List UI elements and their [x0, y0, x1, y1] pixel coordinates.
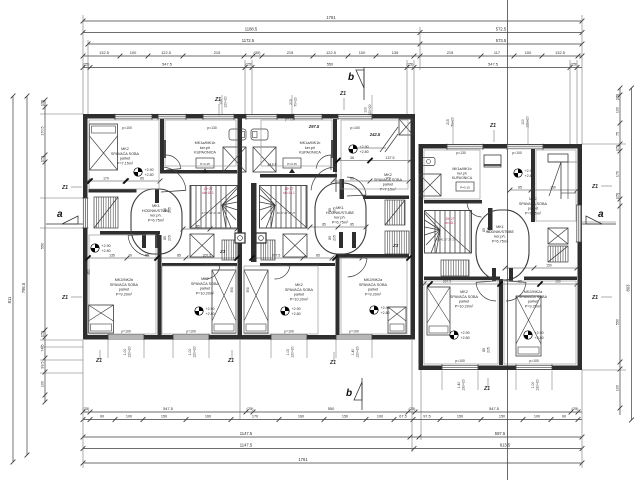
unit2 level marker lower bedroom — [281, 307, 301, 316]
guide stub w3b — [306, 340, 308, 358]
unit3 wall between lower bedrooms — [499, 279, 503, 365]
svg-text:(25): (25) — [572, 406, 580, 411]
svg-text:207.5: 207.5 — [272, 253, 281, 257]
svg-text:Z3: Z3 — [392, 243, 399, 248]
Z1 left lower stub line — [71, 296, 82, 298]
unit2 lower rooms top wall left — [260, 263, 335, 266]
rotated dim unit2 corridor b — [328, 235, 337, 241]
svg-text:SPAVAĆA SOBA: SPAVAĆA SOBA — [110, 282, 139, 287]
Z1 bottom unit2 left stub line — [231, 350, 233, 359]
dimension line top overall 1761 — [81, 15, 585, 24]
unit2 corridor inner dim — [308, 223, 369, 230]
svg-text:P=7.15m²: P=7.15m² — [380, 187, 397, 191]
dimension line right segments — [615, 86, 622, 415]
unit2 wall bedroom/bath vertical — [333, 119, 337, 172]
svg-text:550: 550 — [615, 319, 619, 325]
guide vertical x240 bottom — [239, 340, 241, 419]
svg-text:P=9.20m²: P=9.20m² — [116, 292, 133, 296]
unit1 stair column box — [235, 233, 245, 243]
interior dim row unit3 mid — [503, 264, 580, 271]
unit3 bath label — [452, 167, 473, 180]
svg-text:550: 550 — [40, 243, 44, 249]
interior dim row unit1 upper — [86, 176, 163, 183]
svg-text:100: 100 — [615, 107, 619, 113]
rotated dim unit3 corridor b — [482, 227, 491, 233]
guide vertical x421 bottom — [420, 370, 422, 440]
svg-text:p=100: p=100 — [529, 359, 539, 363]
svg-text:1761: 1761 — [298, 457, 308, 462]
svg-text:+2.90: +2.90 — [525, 169, 534, 173]
rotated dim pair top x222 — [219, 96, 228, 108]
unit1 door lower-right — [205, 264, 220, 279]
svg-text:Z1: Z1 — [214, 97, 221, 103]
guide stub w5b — [477, 371, 479, 390]
unit3 bed lower-right bedroom — [516, 296, 541, 356]
window top unit1 p=100 — [115, 114, 152, 120]
svg-text:MK2/MK2a: MK2/MK2a — [524, 290, 543, 294]
unit2 wc fixture — [251, 129, 268, 140]
unit1 wall bedroom bottom — [89, 189, 137, 193]
Z1 top unit2 stub line — [343, 98, 345, 110]
svg-text:795.5: 795.5 — [21, 282, 26, 293]
svg-text:100: 100 — [377, 415, 383, 419]
svg-text:160: 160 — [205, 415, 211, 419]
svg-text:MK1: MK1 — [152, 204, 160, 208]
dimension line bottom 25/547.5 row — [81, 406, 582, 414]
unit3 level marker lower-left — [450, 331, 470, 340]
window bottom unit2 right p=100 — [336, 334, 372, 340]
svg-text:+2.80: +2.80 — [360, 150, 369, 154]
window bottom unit1 right p=100 — [173, 334, 209, 340]
unit2 bath outline — [261, 120, 332, 166]
unit1 corridor jamb bottom a — [155, 232, 159, 248]
unit2 corridor jamb bottom b — [352, 232, 356, 248]
unit1 lower rooms top wall left — [100, 231, 160, 235]
svg-text:SPAVAĆA SOBA: SPAVAĆA SOBA — [519, 201, 548, 206]
svg-text:70+20: 70+20 — [294, 97, 298, 107]
unit1 sink fixture — [196, 158, 214, 168]
svg-text:132.5: 132.5 — [555, 50, 565, 55]
svg-text:97.5: 97.5 — [423, 415, 430, 419]
svg-text:p=100: p=100 — [284, 330, 294, 334]
svg-text:27 27 27 27 46: 27 27 27 27 46 — [202, 211, 221, 215]
window right wall unit3 — [576, 205, 582, 242]
svg-text:85: 85 — [145, 253, 149, 257]
unit2 stair column box — [256, 233, 266, 243]
unit3 wall stub corridor left — [488, 208, 493, 230]
guide stub x524 — [527, 120, 529, 144]
svg-text:613.5: 613.5 — [500, 443, 511, 448]
guide vertical x88 top — [87, 40, 89, 114]
svg-text:135: 135 — [109, 253, 115, 257]
svg-text:MK1a/MK1b: MK1a/MK1b — [452, 167, 471, 171]
Z1 top unit3 stub line — [493, 130, 495, 142]
svg-text:152.5: 152.5 — [382, 253, 391, 257]
svg-text:(25): (25) — [40, 331, 44, 338]
svg-text:120+20: 120+20 — [368, 104, 372, 116]
svg-text:120+20: 120+20 — [356, 346, 360, 358]
svg-text:p=130: p=130 — [207, 126, 217, 130]
dimension line right overall 803 — [625, 86, 634, 423]
Z1 bottom unit2 right stub line — [333, 352, 335, 361]
svg-text:170: 170 — [615, 171, 619, 177]
unit3 lower-left bedroom label — [450, 290, 479, 308]
guide stub w1a — [107, 340, 109, 358]
svg-text:+2.80: +2.80 — [102, 249, 111, 253]
svg-text:85: 85 — [344, 253, 348, 257]
svg-text:170: 170 — [385, 176, 391, 180]
unit1 bath door — [166, 155, 181, 170]
svg-text:MK2: MK2 — [121, 147, 129, 151]
P-box triangle marker unit1 — [202, 169, 208, 174]
svg-text:130+20: 130+20 — [462, 379, 466, 391]
svg-text:SPAVAĆA SOBA: SPAVAĆA SOBA — [111, 151, 140, 156]
svg-text:ker.pň.: ker.pň. — [494, 235, 505, 239]
unit2 door bedroom — [311, 167, 336, 192]
svg-text:1188.5: 1188.5 — [245, 27, 258, 32]
unit2 wall bedroom bottom — [363, 196, 409, 200]
unit1 lower flight strips — [222, 240, 236, 260]
svg-text:+2.90: +2.90 — [145, 168, 154, 172]
unit2 bed lower-left bedroom — [244, 270, 268, 333]
unit3 level marker upper — [514, 169, 534, 178]
unit2 door lower-right — [347, 257, 367, 277]
svg-text:85: 85 — [163, 236, 167, 240]
unit2 lower-left bedroom label — [285, 283, 314, 301]
svg-text:p=100: p=100 — [349, 330, 359, 334]
interior dim row unit3 upper — [508, 185, 580, 192]
svg-text:10: 10 — [128, 253, 132, 257]
svg-text:ker.pň: ker.pň — [200, 146, 210, 150]
Z1 bottom unit1 stub line — [99, 350, 101, 359]
dimension line top 547.5/550/547.5 — [81, 62, 582, 70]
svg-text:215: 215 — [447, 50, 454, 55]
Z1 top unit1 stub line — [218, 104, 220, 116]
unit2 lower flight strips — [261, 240, 275, 260]
guide vertical x252 top — [251, 60, 253, 114]
guide stub x366 — [371, 95, 373, 114]
svg-text:SPAVAĆA SOBA: SPAVAĆA SOBA — [519, 294, 548, 299]
svg-text:100: 100 — [40, 381, 44, 387]
svg-text:sb=18.1: sb=18.1 — [283, 191, 295, 195]
svg-text:KUPAONICA: KUPAONICA — [452, 176, 473, 180]
unit3 shaft box — [419, 174, 441, 196]
unit1 stair fan treads — [190, 186, 238, 229]
guide stub w1b — [143, 340, 145, 358]
svg-text:130+20: 130+20 — [536, 379, 540, 391]
svg-text:100: 100 — [525, 50, 532, 55]
svg-text:75: 75 — [615, 132, 619, 136]
svg-text:Z1: Z1 — [489, 123, 496, 129]
svg-text:547.5: 547.5 — [489, 406, 499, 411]
unit3 door lower-left — [476, 281, 496, 301]
window top unit1 p=130 — [203, 114, 234, 120]
svg-text:150: 150 — [457, 415, 463, 419]
svg-text:1147.5: 1147.5 — [240, 443, 253, 448]
unit3 lower-left bedroom outline — [424, 281, 498, 364]
svg-text:p=130: p=130 — [456, 151, 466, 155]
svg-text:ker.pň.: ker.pň. — [150, 214, 161, 218]
unit2 bath shaft — [253, 147, 276, 172]
svg-text:803: 803 — [625, 284, 630, 292]
guide vertical x570 top — [569, 60, 571, 144]
guide stub w2a — [172, 340, 174, 358]
guide stub w3a — [270, 340, 272, 358]
svg-text:Z1: Z1 — [483, 386, 490, 392]
guide horizontal left y373 — [40, 372, 83, 374]
svg-text:ker.pň: ker.pň — [305, 146, 315, 150]
unit1 wall between lower bedrooms — [158, 235, 162, 335]
rotated dim pair top x524 — [521, 116, 530, 128]
svg-text:(25): (25) — [615, 94, 619, 101]
svg-text:67.5: 67.5 — [399, 415, 406, 419]
guide stub x449 — [452, 120, 454, 144]
unit3 closet strips left — [441, 260, 469, 276]
svg-text:100: 100 — [126, 415, 132, 419]
svg-text:120+20: 120+20 — [526, 116, 530, 128]
svg-text:SPAVAĆA SOBA: SPAVAĆA SOBA — [285, 287, 314, 292]
svg-text:100: 100 — [615, 385, 619, 391]
unit2 lower-left bedroom outline — [244, 266, 318, 334]
svg-text:+2.80: +2.80 — [206, 312, 215, 316]
left building wall right — [411, 114, 416, 340]
svg-text:parket: parket — [120, 157, 131, 161]
svg-text:85: 85 — [350, 176, 354, 180]
svg-text:P=9.20m²: P=9.20m² — [525, 304, 542, 308]
svg-text:46 27 27 27 27: 46 27 27 27 27 — [277, 211, 296, 215]
svg-text:120+20: 120+20 — [291, 346, 295, 358]
guide stub x222 — [221, 95, 223, 114]
rotated dim pair top x362 — [364, 104, 373, 116]
svg-text:+2.80: +2.80 — [525, 174, 534, 178]
svg-text:(25): (25) — [407, 62, 415, 67]
guide stub w4a — [335, 340, 337, 358]
svg-text:P=6.75m²: P=6.75m² — [492, 239, 509, 243]
window top unit2 p=100 — [338, 114, 372, 120]
window top unit2 p=130 — [246, 114, 277, 120]
window bottom unit2 left p=100 — [271, 334, 307, 340]
svg-text:90: 90 — [562, 415, 566, 419]
unit2 lower rooms top wall right — [338, 254, 409, 258]
svg-text:150: 150 — [499, 415, 505, 419]
svg-text:parket: parket — [294, 293, 305, 297]
interior dim row unit1 — [86, 253, 240, 260]
guide vertical right bottom — [581, 370, 583, 468]
svg-text:120+20: 120+20 — [193, 346, 197, 358]
left building wall bottom — [83, 335, 415, 340]
svg-text:205: 205 — [168, 235, 172, 241]
svg-text:p=100: p=100 — [350, 126, 360, 130]
unit3 door lower-right — [506, 281, 526, 301]
svg-text:(25): (25) — [40, 156, 44, 163]
guide horizontal right y222 — [582, 221, 616, 223]
svg-text:P=9.20m²: P=9.20m² — [365, 292, 382, 296]
svg-text:MK2/MK2a: MK2/MK2a — [364, 278, 383, 282]
guide horizontal right y144 — [582, 143, 626, 145]
window top unit1 entrance — [158, 114, 186, 120]
svg-text:350: 350 — [230, 287, 234, 293]
svg-text:parket: parket — [459, 300, 470, 304]
svg-text:150: 150 — [161, 415, 167, 419]
svg-text:P=3.15: P=3.15 — [287, 162, 297, 166]
svg-text:85: 85 — [482, 348, 486, 352]
svg-text:205: 205 — [487, 347, 491, 353]
right building wall bottom — [419, 366, 583, 371]
svg-text:parket: parket — [200, 287, 211, 291]
svg-text:+2.90: +2.90 — [381, 306, 390, 310]
unit2 corridor oval wall — [315, 183, 366, 254]
unit1 bath outline — [165, 120, 236, 166]
unit2 lower-right bedroom outline — [341, 258, 407, 334]
window bottom unit1 left p=100 — [108, 334, 144, 340]
unit1 bath bottom wall — [160, 170, 237, 174]
section marker b bottom — [346, 378, 362, 410]
party wall second leaf stair zone — [251, 183, 257, 262]
svg-text:117: 117 — [494, 50, 500, 55]
svg-text:100: 100 — [364, 107, 368, 113]
guide horizontal left y347 — [40, 346, 83, 348]
unit3 closet strips right — [548, 246, 568, 262]
unit1 lower-left bedroom outline — [89, 235, 156, 334]
guide vertical x245 top — [244, 60, 246, 114]
unit2 bedroom label — [374, 173, 403, 191]
guide horizontal left y340 — [40, 339, 83, 341]
interior dim row unit2 — [250, 253, 412, 260]
svg-text:parket: parket — [368, 288, 379, 292]
window top unit3 p=130 — [447, 144, 483, 150]
guide stub w6a — [515, 371, 517, 390]
unit1 bedroom label — [111, 147, 140, 165]
svg-text:P=3.15: P=3.15 — [460, 186, 470, 190]
svg-text:+2.90: +2.90 — [360, 145, 369, 149]
svg-text:P=7.15m²: P=7.15m² — [117, 161, 134, 165]
unit1 wardrobe hatch — [94, 197, 118, 228]
unit2 wall between lower bedrooms — [336, 254, 340, 335]
guide vertical left top — [82, 15, 84, 114]
unit1 corridor jamb bottom b — [142, 232, 146, 248]
unit3 bath outline — [424, 150, 480, 199]
svg-text:122.5: 122.5 — [326, 50, 336, 55]
unit1 door bedroom — [161, 167, 186, 192]
svg-text:1761: 1761 — [326, 15, 336, 20]
svg-text:170.5: 170.5 — [40, 126, 44, 135]
svg-text:1.00: 1.00 — [531, 382, 535, 389]
svg-text:+2.80: +2.80 — [292, 312, 301, 316]
guide vertical x577 top — [576, 60, 578, 144]
unit1 level marker upper — [134, 168, 154, 177]
svg-text:Z1: Z1 — [339, 91, 346, 97]
dimension line left 795.5 — [21, 94, 30, 458]
svg-text:MK2/MK2b: MK2/MK2b — [115, 278, 134, 282]
unit2 wardrobe hatch — [385, 200, 405, 225]
rotated dim pair top x449 — [446, 117, 455, 127]
guide stub x292 — [291, 95, 293, 114]
svg-text:p=100: p=100 — [121, 330, 131, 334]
svg-text:99.5: 99.5 — [40, 361, 44, 368]
svg-text:SPAVAĆA SOBA: SPAVAĆA SOBA — [359, 282, 388, 287]
rotated dim pair bottom unit3 w2 — [531, 379, 540, 391]
svg-text:137.5: 137.5 — [386, 156, 395, 160]
guide horizontal left y228 — [40, 227, 83, 229]
svg-text:MK2: MK2 — [460, 290, 468, 294]
svg-text:MK1: MK1 — [336, 206, 344, 210]
svg-text:+2.90: +2.90 — [535, 331, 544, 335]
svg-text:1.00: 1.00 — [286, 349, 290, 356]
unit3 level marker lower-right — [524, 331, 544, 340]
left building wall top — [83, 114, 415, 119]
window top unit3 p=100 — [507, 144, 543, 150]
svg-text:Z1: Z1 — [61, 295, 68, 301]
unit3 closet top-right — [548, 154, 577, 199]
unit2 wardrobe hatch lower — [385, 231, 409, 254]
svg-text:1147.5: 1147.5 — [240, 431, 253, 436]
unit3 closet xbox — [548, 228, 568, 244]
unit1 bath label — [194, 141, 216, 155]
svg-text:P=6.75m²: P=6.75m² — [148, 218, 165, 222]
svg-text:85: 85 — [196, 225, 200, 229]
svg-text:MK1a/MK1b: MK1a/MK1b — [195, 141, 216, 145]
guide horizontal left y360 — [40, 359, 83, 361]
svg-text:170: 170 — [103, 176, 109, 180]
svg-text:+2.90: +2.90 — [102, 244, 111, 248]
svg-text:(25): (25) — [615, 145, 619, 152]
svg-text:572.5: 572.5 — [496, 27, 507, 32]
guide stub w4b — [371, 340, 373, 358]
svg-text:(25): (25) — [615, 193, 619, 200]
svg-text:+2.90: +2.90 — [461, 331, 470, 335]
svg-text:MK1: MK1 — [496, 225, 504, 229]
dimension line top 1172.5 / 573.5 — [86, 38, 585, 46]
svg-text:p=100: p=100 — [512, 151, 522, 155]
svg-text:MK2: MK2 — [295, 283, 303, 287]
unit2 sink fixture — [283, 158, 301, 168]
svg-text:P=10.20m²: P=10.20m² — [455, 304, 474, 308]
unit3 bedroom label — [519, 197, 548, 215]
svg-text:Z1: Z1 — [95, 358, 102, 364]
guide vertical right top — [581, 15, 583, 144]
unit1 wall bedroom/bath vertical — [160, 119, 164, 172]
unit1 bed top bedroom — [90, 124, 118, 170]
left building wall left — [83, 114, 88, 340]
unit1 lower rooms top wall right — [162, 263, 237, 266]
svg-text:b: b — [348, 72, 354, 83]
svg-text:a: a — [57, 209, 63, 220]
svg-text:(25): (25) — [83, 62, 91, 67]
unit1 bed lower-right bedroom — [212, 270, 236, 333]
guide stub w5a — [441, 371, 443, 390]
svg-text:100: 100 — [130, 50, 137, 55]
svg-text:100: 100 — [534, 415, 540, 419]
svg-text:1.40: 1.40 — [351, 349, 355, 356]
svg-text:1.00: 1.00 — [123, 349, 127, 356]
svg-text:215: 215 — [214, 50, 221, 55]
svg-text:215: 215 — [289, 99, 293, 105]
svg-text:85: 85 — [328, 208, 332, 212]
rotated dim unit2 corridor — [328, 207, 337, 213]
svg-text:1172.5: 1172.5 — [242, 38, 255, 43]
dimension line bottom overall 1761 — [81, 457, 585, 465]
svg-text:350: 350 — [246, 287, 250, 293]
svg-text:122.5: 122.5 — [161, 50, 171, 55]
rotated dim pair bottom unit1 w2 — [188, 346, 197, 358]
guide horizontal left y198 — [40, 197, 88, 199]
svg-text:267.5: 267.5 — [443, 279, 452, 283]
guide vertical x420 top — [419, 27, 421, 70]
svg-text:1.00: 1.00 — [188, 349, 192, 356]
unit3 sink fixture small — [484, 155, 501, 167]
rotated dim pair top x292 — [289, 97, 298, 107]
svg-text:ker.pň.: ker.pň. — [334, 216, 345, 220]
